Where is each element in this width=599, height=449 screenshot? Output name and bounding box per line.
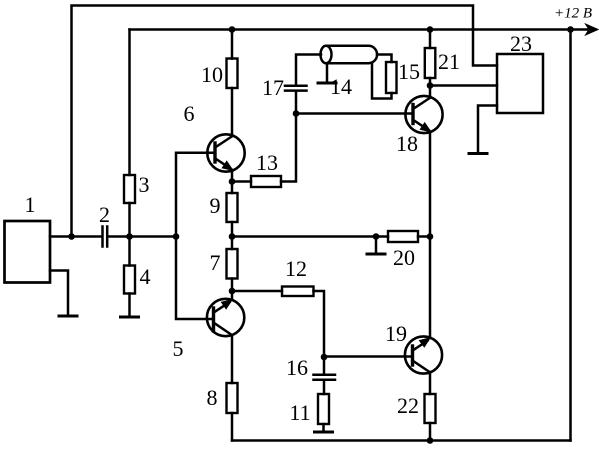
wire: T19 collector to R22	[429, 372, 432, 394]
node: emitter6 / R13	[229, 178, 236, 185]
node: R9/R7 row	[229, 233, 236, 240]
svg-text:+12 В: +12 В	[554, 6, 592, 22]
node: rail / R10	[229, 26, 236, 33]
wire: +12V rail	[130, 28, 588, 31]
wire: R8 to bottom rail	[231, 413, 234, 441]
svg-text:18: 18	[396, 131, 418, 156]
capacitor C2	[103, 227, 108, 247]
node: R20 / 18-19 line	[427, 233, 434, 240]
svg-text:8: 8	[207, 385, 218, 410]
wire: divider vertical to both transistor bases	[176, 153, 215, 319]
svg-text:23: 23	[510, 31, 532, 56]
node: divider junction	[173, 233, 180, 240]
node: R22 / bottom rail	[427, 437, 434, 444]
wire: R20 to 18-19 line	[418, 235, 430, 238]
svg-text:11: 11	[289, 400, 310, 425]
svg-text:21: 21	[438, 49, 460, 74]
wire: capsule right lead to R15 top	[377, 55, 392, 63]
svg-text:3: 3	[139, 172, 150, 197]
box 1 (input source)	[5, 221, 51, 283]
node: R3/R4 junction	[126, 233, 133, 240]
capacitor C16	[314, 375, 336, 380]
wire: R10 to T6 collector	[231, 88, 234, 136]
transistor Q19	[405, 336, 442, 373]
wire: rail to R10	[231, 30, 234, 59]
wire: cap2 to divider node	[108, 235, 176, 238]
node: box1 output / top loop	[68, 233, 75, 240]
wire: R12 right end down to base19 node	[314, 291, 325, 357]
wire: capsule bottom-left to ground	[326, 63, 329, 83]
resistor R11	[318, 394, 329, 424]
wire: node to R13	[232, 180, 251, 183]
resistor R12	[282, 287, 314, 297]
wire: node down to cap16	[323, 357, 326, 374]
svg-text:6: 6	[184, 101, 195, 126]
transistor Q5	[207, 299, 244, 336]
wire: R11 to ground	[322, 424, 325, 432]
wire: T5 collector to R8	[231, 335, 234, 383]
wire: base wire of Q18	[296, 112, 413, 115]
ground (box23)	[469, 152, 487, 155]
svg-text:10: 10	[201, 62, 223, 87]
wire: right-side vertical from rail to bottom rail	[569, 30, 572, 441]
svg-text:16: 16	[286, 355, 308, 380]
resistor R8	[227, 383, 238, 413]
ground (box1)	[59, 315, 77, 318]
wire: R13 right end up to base18 node	[281, 92, 296, 182]
node: rail / R21	[427, 26, 434, 33]
wire: R3 to node	[128, 203, 131, 237]
node: ground20 junction	[373, 233, 380, 240]
ground (R4)	[121, 316, 139, 319]
svg-text:7: 7	[210, 250, 221, 275]
svg-text:19: 19	[385, 321, 407, 346]
wire: R9 node row to R20	[232, 235, 388, 238]
svg-text:17: 17	[262, 75, 284, 100]
svg-text:14: 14	[330, 74, 352, 99]
svg-text:20: 20	[393, 245, 415, 270]
transistor Q6	[207, 134, 244, 171]
svg-text:2: 2	[99, 202, 110, 227]
svg-text:1: 1	[25, 192, 36, 217]
svg-text:4: 4	[140, 264, 151, 289]
svg-text:12: 12	[285, 256, 307, 281]
wire: cap16 to R11	[323, 381, 326, 394]
resistor R4	[124, 266, 135, 294]
resistor R20	[388, 231, 418, 242]
ground (capsule 14)	[318, 82, 336, 85]
wire: collector18 node to box23	[430, 84, 497, 87]
wire: R22 to bottom rail	[429, 423, 432, 441]
resistor R9	[227, 193, 238, 222]
wire: node to R4	[128, 237, 131, 266]
box 23	[497, 54, 543, 113]
node: rail / right vertical	[567, 26, 574, 33]
capacitor C17	[285, 86, 307, 91]
wire: box1 output to cap2	[50, 235, 101, 238]
wire: rail to R21	[429, 30, 432, 49]
wire: bottom rail	[232, 439, 571, 442]
power arrow +12V	[586, 24, 599, 35]
wire: R9 to R7	[231, 222, 234, 249]
wire: T18 emitter down to T19 emitter	[429, 132, 432, 338]
wire: R4 to ground	[128, 294, 131, 318]
wire: R21 to T18 collector	[429, 78, 432, 97]
svg-text:22: 22	[397, 393, 419, 418]
svg-text:15: 15	[398, 59, 420, 84]
wire: T6 emitter to R9	[231, 171, 234, 194]
ground (R11)	[315, 431, 333, 434]
resistor R7	[227, 249, 238, 279]
svg-text:5: 5	[173, 336, 184, 361]
svg-text:9: 9	[210, 193, 221, 218]
node: R7 / R12 / emitter5	[229, 288, 236, 295]
node: cap17 / base18 / R13	[293, 110, 300, 117]
resistor R10	[227, 59, 238, 89]
wire: cap17 up to capsule left lead	[296, 55, 321, 85]
wire: outer top loop from box1 node up, across top, down to box23 input	[72, 6, 498, 237]
node: collector18 / box23	[427, 82, 434, 89]
svg-text:13: 13	[256, 150, 278, 175]
ground (R20)	[367, 253, 385, 256]
resistor R13	[251, 176, 281, 187]
node: R12 / cap16 / base19	[321, 354, 328, 361]
wire: base wire of Q19	[324, 355, 413, 358]
resistor R3	[124, 175, 135, 203]
wire: box1 lower tab to ground	[50, 271, 68, 317]
resistor R15	[386, 62, 397, 93]
wire: node to R12	[232, 290, 282, 293]
wire: R15 bottom loop to capsule second terminal	[372, 63, 392, 98]
resistor R22	[425, 394, 436, 423]
wire: R7 to T5 emitter	[231, 279, 234, 301]
wire: ground20 stem	[375, 237, 378, 255]
transistor Q18	[405, 96, 442, 133]
resistor R21	[425, 48, 436, 78]
microphone capsule 14	[321, 46, 378, 63]
wire: rail down to R3	[128, 30, 131, 176]
wire: box23 lower tab to ground	[478, 106, 497, 154]
